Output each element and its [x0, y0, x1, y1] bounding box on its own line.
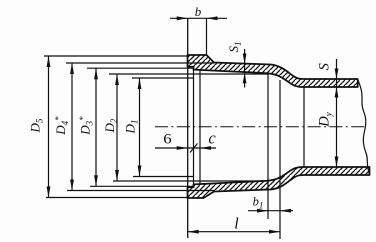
svg-text:c: c — [208, 129, 216, 148]
svg-text:S: S — [317, 62, 333, 70]
svg-text:b: b — [195, 4, 202, 19]
svg-text:6: 6 — [163, 131, 171, 147]
svg-text:l: l — [234, 216, 239, 233]
